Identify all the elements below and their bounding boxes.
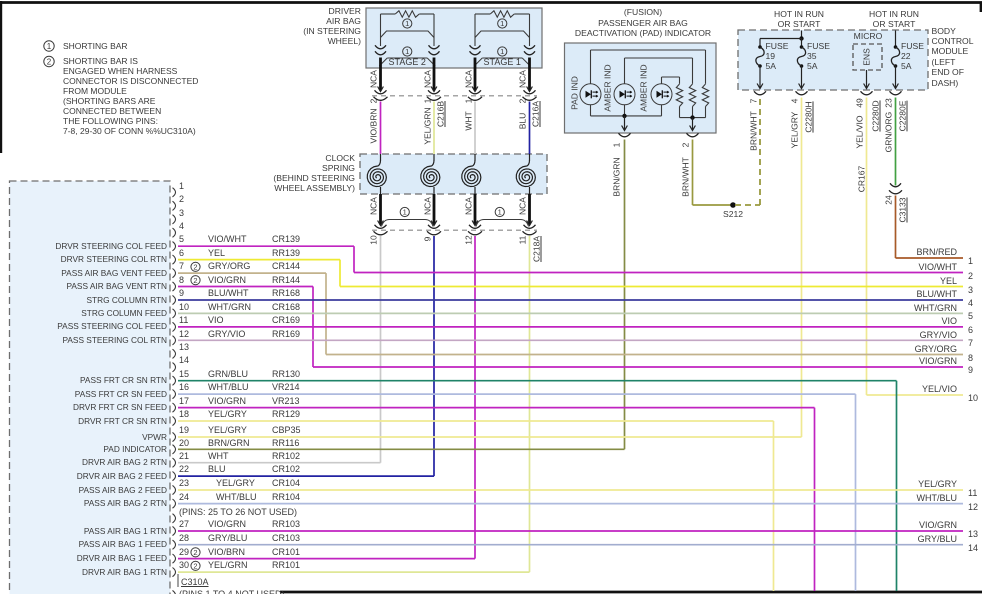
svg-text:1: 1 xyxy=(47,42,52,51)
svg-text:2: 2 xyxy=(47,57,52,66)
svg-text:1: 1 xyxy=(405,19,409,28)
svg-text:1: 1 xyxy=(403,208,407,217)
svg-text:2: 2 xyxy=(193,548,197,557)
svg-text:2: 2 xyxy=(193,263,197,272)
svg-text:1: 1 xyxy=(498,208,502,217)
svg-text:2: 2 xyxy=(193,562,197,571)
svg-text:1: 1 xyxy=(500,19,504,28)
svg-text:1: 1 xyxy=(405,47,409,56)
svg-text:2: 2 xyxy=(193,276,197,285)
svg-text:1: 1 xyxy=(500,47,504,56)
